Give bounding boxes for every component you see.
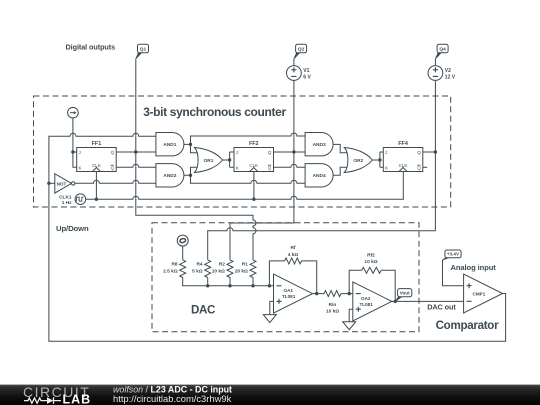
- svg-text:3-bit synchronous counter: 3-bit synchronous counter: [143, 105, 286, 119]
- resistor R8 2.5k: [163, 260, 186, 278]
- svg-text:AND1: AND1: [163, 142, 176, 148]
- ammeter AM2: [177, 235, 188, 246]
- resistor R1 20k: [235, 260, 256, 278]
- node flag Q1: [136, 44, 149, 59]
- svg-text:R1: R1: [242, 261, 248, 267]
- DAC dashed box: [152, 223, 419, 332]
- svg-text:Q: Q: [268, 150, 272, 155]
- resistor Rf 4k: [285, 245, 302, 264]
- wire node Q4: flag to V2: [434, 59, 436, 66]
- wire AM2 to R8: [182, 246, 184, 260]
- svg-text:DAC out: DAC out: [427, 302, 456, 311]
- wire FF2 CLK to clock bus: [253, 172, 255, 200]
- svg-text:4 kΩ: 4 kΩ: [288, 252, 299, 258]
- svg-text:CLK1: CLK1: [59, 194, 72, 200]
- svg-text:K: K: [236, 166, 239, 171]
- svg-text:Q: Q: [111, 150, 115, 155]
- svg-text:Up/Down: Up/Down: [56, 224, 89, 233]
- svg-text:5 kΩ: 5 kΩ: [192, 268, 203, 274]
- svg-text:FF4: FF4: [398, 141, 408, 147]
- wire OA1 noninverting to ground: [270, 301, 274, 314]
- svg-text:1 Hz: 1 Hz: [62, 200, 72, 206]
- svg-text:Q: Q: [268, 166, 272, 171]
- wire comparator output feedback loop (CMP1 out to Up/Down line and AND1 input): [49, 133, 506, 341]
- flip-flop FF2: [234, 141, 274, 172]
- svg-text:DAC: DAC: [191, 303, 216, 316]
- ammeter AM1: [68, 107, 79, 118]
- comparator CMP1: [464, 274, 503, 313]
- voltage source V2 12V: [428, 66, 456, 81]
- gate AND3: [305, 133, 333, 156]
- svg-text:OR1: OR1: [204, 158, 214, 164]
- op-amp OA2 TL081: [353, 282, 392, 321]
- svg-text:J: J: [236, 150, 238, 155]
- svg-text:OA2: OA2: [361, 296, 371, 301]
- wire node Q2: flag to V1: [293, 59, 295, 66]
- svg-text:R4: R4: [196, 261, 202, 267]
- wire FF1 Q to AND1 input: [116, 151, 156, 153]
- wire clock bus CLK1 to FF1/FF2/FF4 CLK: [86, 172, 404, 200]
- wire FF2 Qbar to AND4 input: [274, 164, 306, 167]
- wire OA2 noninverting to ground: [349, 309, 353, 322]
- resistor R2 10k: [212, 260, 233, 278]
- svg-text:Rf: Rf: [290, 245, 295, 251]
- wire V2 to R4: [208, 80, 436, 260]
- svg-text:AND3: AND3: [313, 142, 326, 148]
- flip-flop FF4: [383, 141, 423, 172]
- wire AND2 output to OR1 and AND4: [184, 167, 305, 183]
- svg-text:J: J: [79, 150, 81, 155]
- wire FF2 Q to AND3 input: [274, 151, 306, 153]
- wire Up/Down node to NOT input: [49, 182, 55, 184]
- wire AM1 to FF1 J and K: [73, 118, 77, 167]
- voltage source V1 6V: [287, 66, 312, 81]
- svg-text:R2: R2: [219, 261, 225, 267]
- node flag Vout: [395, 289, 412, 302]
- svg-text:6 V: 6 V: [303, 74, 311, 80]
- wire FF4 Qbar stub: [423, 166, 427, 168]
- svg-text:Q1: Q1: [140, 47, 147, 53]
- gate OR2: [344, 148, 372, 173]
- svg-text:Q4: Q4: [439, 47, 446, 53]
- svg-text:AND2: AND2: [163, 173, 176, 179]
- wire summing bus to OA1 inverting input: [183, 278, 274, 286]
- node flag Q4: [435, 44, 448, 59]
- wire AND3 output to OR2: [333, 144, 349, 152]
- svg-text:OA1: OA1: [284, 288, 294, 293]
- wire node Q1: flag to FF1 Q and down to R1: [136, 59, 256, 260]
- wire AND1 output to OR1 and AND3: [184, 133, 305, 153]
- svg-text:12 V: 12 V: [445, 74, 456, 80]
- svg-text:CMP1: CMP1: [473, 292, 486, 297]
- svg-text:TL081: TL081: [360, 302, 374, 307]
- gate AND4: [305, 164, 333, 187]
- clock source CLK1: [59, 194, 86, 206]
- gate AND1: [156, 133, 184, 156]
- svg-text:Q: Q: [111, 166, 115, 171]
- svg-text:OR2: OR2: [353, 158, 363, 164]
- wire OA2 feedback via Rf2: [349, 270, 395, 301]
- flip-flop FF1: [77, 141, 117, 172]
- resistor Rin 10k: [324, 291, 341, 315]
- wire FF1 Qbar to AND2 input: [116, 164, 156, 167]
- svg-text:J: J: [385, 150, 387, 155]
- svg-text:+3.4V: +3.4V: [447, 252, 460, 257]
- resistor Rf2 10k: [362, 252, 381, 273]
- svg-text:http://circuitlab.com/c3rhw9k: http://circuitlab.com/c3rhw9k: [113, 393, 232, 404]
- wire OR1 output to FF2 J and K: [223, 152, 235, 167]
- ground for OA1: [263, 315, 276, 323]
- op-amp OA1 TL081: [274, 274, 313, 313]
- gate AND2: [156, 164, 184, 187]
- counter dashed box: [34, 96, 451, 207]
- svg-text:Rf2: Rf2: [367, 252, 375, 258]
- svg-text:Digital outputs: Digital outputs: [66, 43, 116, 52]
- wire AND4 output to OR2: [333, 167, 349, 175]
- svg-text:Q2: Q2: [298, 47, 305, 53]
- node flag Q2: [294, 44, 307, 59]
- CircuitLab logo: [23, 384, 91, 405]
- svg-text:FF2: FF2: [249, 141, 259, 147]
- gate OR1: [195, 148, 223, 173]
- svg-text:Vout: Vout: [400, 291, 410, 296]
- svg-text:Analog input: Analog input: [451, 263, 497, 272]
- svg-text:10 kΩ: 10 kΩ: [326, 309, 339, 315]
- svg-text:10 kΩ: 10 kΩ: [212, 268, 225, 274]
- svg-text:10 kΩ: 10 kΩ: [364, 259, 377, 265]
- svg-text:Q: Q: [417, 150, 421, 155]
- svg-text:NOT: NOT: [57, 181, 67, 186]
- node flag +3.4V: [443, 250, 462, 260]
- svg-text:V2: V2: [445, 68, 451, 74]
- wire OR2 output to FF4 J and K: [372, 152, 383, 167]
- wire OA1 feedback via Rf: [269, 261, 316, 294]
- svg-text:Comparator: Comparator: [436, 319, 499, 332]
- svg-text:K: K: [79, 166, 82, 171]
- wire FF4 Q to node Q4: [423, 151, 436, 153]
- wire Analog input +3.4V to CMP1 noninverting input: [443, 260, 464, 286]
- NOT gate: [55, 174, 75, 193]
- ground for OA2: [343, 322, 356, 330]
- wire DAC out: OA2 output to CMP1 inverting input: [392, 300, 464, 302]
- svg-text:LAB: LAB: [63, 393, 92, 405]
- wire NOT output to AND2 input: [75, 180, 156, 183]
- wire V1 to R2: [230, 80, 294, 260]
- svg-text:FF1: FF1: [92, 141, 102, 147]
- svg-text:20 kΩ: 20 kΩ: [235, 268, 248, 274]
- svg-text:AND4: AND4: [313, 173, 326, 179]
- resistor R4 5k: [192, 260, 211, 278]
- svg-text:Q: Q: [417, 166, 421, 171]
- svg-text:2.5 kΩ: 2.5 kΩ: [163, 268, 178, 274]
- svg-text:Rin: Rin: [329, 302, 337, 308]
- wire OA1 output via Rin to OA2: [313, 293, 353, 295]
- svg-text:V1: V1: [303, 68, 309, 74]
- svg-text:TL081: TL081: [282, 294, 296, 299]
- svg-text:R8: R8: [171, 261, 177, 267]
- wire FF1 CLK to clock bus: [95, 172, 97, 200]
- junction dots: [47, 182, 50, 185]
- svg-text:K: K: [385, 166, 388, 171]
